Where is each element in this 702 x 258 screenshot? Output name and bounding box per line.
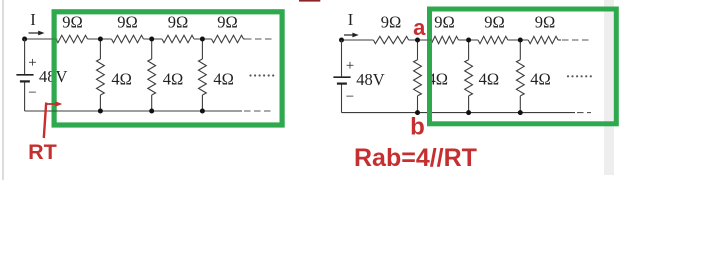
arrow: current direction right	[344, 34, 355, 36]
node junction bottom #1 right	[415, 110, 420, 115]
wire: shunt branch #3 left	[201, 39, 203, 59]
node junction bottom #2 right	[466, 110, 471, 115]
node junction top #1 left	[98, 37, 103, 42]
wire: left circuit top rail dashed continuation	[245, 38, 274, 40]
wire: right circuit top rail dashed continuation	[562, 39, 591, 41]
svg-text:9Ω: 9Ω	[381, 13, 402, 32]
resistor R 9ohm #1 left	[56, 35, 88, 42]
wire: left source branch	[24, 39, 26, 74]
svg-text:a: a	[413, 15, 426, 40]
node: source top-left junction right	[339, 38, 344, 43]
node junction top #3 right	[518, 38, 523, 43]
node junction top #3 left	[200, 37, 205, 42]
dots: ladder continuation right	[567, 75, 592, 77]
page column divider band	[604, 0, 614, 175]
node junction bottom #1 left	[98, 109, 103, 114]
resistor 9ohm #3 right	[478, 36, 508, 43]
svg-text:4Ω: 4Ω	[163, 70, 184, 89]
node junction top #2 right	[466, 38, 471, 43]
battery V1 48V left	[16, 74, 33, 76]
wire: right source branch	[341, 40, 343, 76]
dots: ladder continuation left	[249, 74, 274, 76]
mark: dark red cropped bar at top	[299, 0, 320, 2]
page edge line left	[2, 0, 4, 180]
wire: right circuit bottom rail dashed continuation	[577, 112, 591, 114]
wire: shunt branch #1 right	[417, 40, 419, 60]
svg-text:Rab=4//RT: Rab=4//RT	[354, 144, 477, 172]
svg-text:−: −	[346, 89, 354, 105]
highlight box: Rab network right (green)	[430, 9, 617, 124]
svg-text:RT: RT	[28, 140, 57, 164]
node junction top #1 right	[415, 38, 420, 43]
svg-text:b: b	[410, 114, 425, 141]
node junction top #2 left	[149, 37, 154, 42]
resistor 4ohm #1 left	[97, 59, 105, 95]
resistor 4ohm #2 right	[465, 60, 473, 96]
svg-text:4Ω: 4Ω	[479, 70, 500, 89]
wire: crossing over green left bottom	[49, 110, 58, 112]
resistor 4ohm #3 left	[199, 59, 207, 95]
node junction bottom #2 left	[149, 109, 154, 114]
svg-text:4Ω: 4Ω	[111, 70, 132, 89]
resistor 4ohm #3 right	[516, 60, 524, 96]
svg-text:9Ω: 9Ω	[484, 13, 505, 32]
resistor 9ohm #2 right	[429, 36, 458, 43]
highlight box: RT network left (green)	[54, 12, 282, 125]
battery V2 48V right	[333, 76, 350, 78]
wire: shunt branch #3 right	[519, 40, 521, 60]
leader line: RT pointer (red)	[44, 103, 46, 139]
resistor 4ohm #2 left	[148, 59, 156, 95]
wire: right circuit top rail	[342, 39, 374, 41]
wire: shunt branch #1 left	[99, 39, 101, 59]
wire: crossing over green right top	[425, 39, 434, 41]
wire: shunt branch #2 left	[151, 39, 153, 59]
svg-text:9Ω: 9Ω	[168, 13, 189, 32]
resistor 4ohm #1 right	[414, 60, 422, 96]
node junction bottom #3 left	[200, 109, 205, 114]
svg-text:4Ω: 4Ω	[213, 70, 234, 89]
node junction bottom #3 right	[518, 110, 523, 115]
svg-text:I: I	[30, 10, 36, 29]
wire: left circuit top rail	[25, 38, 56, 40]
resistor R 9ohm #4 left	[212, 35, 244, 42]
svg-text:9Ω: 9Ω	[62, 13, 83, 32]
wire: left circuit bottom rail dashed continuation	[244, 110, 271, 112]
wire: crossing over green left top	[49, 38, 58, 40]
svg-text:9Ω: 9Ω	[117, 13, 138, 32]
svg-text:48V: 48V	[356, 70, 385, 89]
arrow: current direction left	[29, 32, 41, 34]
resistor R 9ohm #2 left	[112, 35, 144, 42]
wire: right circuit bottom rail	[342, 112, 576, 114]
resistor 9ohm #1 right	[373, 36, 408, 43]
svg-text:4Ω: 4Ω	[530, 70, 551, 89]
wire: shunt branch #2 right	[468, 40, 470, 60]
wire: left circuit bottom rail	[25, 110, 242, 112]
svg-text:−: −	[28, 85, 36, 101]
resistor R 9ohm #3 left	[162, 35, 194, 42]
svg-text:+: +	[346, 58, 354, 74]
svg-text:9Ω: 9Ω	[434, 13, 455, 32]
node: source top-left junction left	[22, 37, 27, 42]
svg-text:I: I	[348, 10, 354, 29]
svg-text:9Ω: 9Ω	[217, 13, 238, 32]
svg-text:9Ω: 9Ω	[535, 13, 556, 32]
svg-text:+: +	[28, 55, 36, 71]
resistor 9ohm #4 right	[528, 36, 558, 43]
